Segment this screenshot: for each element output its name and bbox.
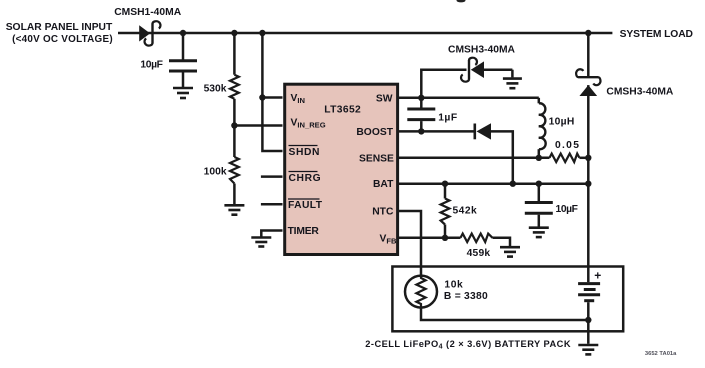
svg-text:2-CELL LiFePO4 (2 × 3.6V) BATT: 2-CELL LiFePO4 (2 × 3.6V) BATTERY PACK [365, 339, 571, 351]
node BAT output cap [536, 181, 542, 187]
svg-text:SYSTEM LOAD: SYSTEM LOAD [620, 29, 693, 40]
capacitor C2 1uF [407, 109, 435, 120]
ground 100k [224, 205, 244, 214]
svg-text:SOLAR PANEL INPUT: SOLAR PANEL INPUT [6, 22, 113, 33]
svg-text:BAT: BAT [373, 179, 394, 190]
wire inductor stubs [538, 98, 541, 104]
resistor R3 0.05 sense [550, 154, 580, 162]
wire BAT line [399, 182, 589, 185]
svg-text:459k: 459k [467, 248, 491, 259]
node VIN column top [259, 30, 265, 36]
resistor R5 459k [461, 234, 493, 242]
svg-text:10k: 10k [444, 279, 463, 290]
pin CHRG [289, 171, 318, 173]
wire SENSE line [399, 157, 550, 160]
wire 459k to ground [493, 238, 511, 246]
svg-text:TIMER: TIMER [288, 226, 320, 237]
wire VFB line [399, 237, 461, 240]
wire right rail [587, 33, 590, 77]
svg-text:BOOST: BOOST [356, 127, 393, 138]
ground TIMER [251, 238, 271, 247]
diode D3 boost [475, 123, 491, 139]
svg-text:FAULT: FAULT [288, 200, 323, 211]
diode D4 CMSH3-40MA output schottky [576, 69, 600, 96]
node VFB 542k [442, 235, 448, 241]
svg-text:CMSH1-40MA: CMSH1-40MA [114, 7, 182, 18]
wire FAULT stub [261, 203, 283, 206]
svg-text:SENSE: SENSE [359, 153, 394, 164]
svg-text:10µH: 10µH [549, 117, 575, 128]
pin FAULT [288, 198, 320, 200]
svg-text:CHRG: CHRG [289, 173, 322, 184]
svg-text:SW: SW [376, 93, 393, 104]
pin SHDN [289, 145, 318, 147]
svg-text:10µF: 10µF [140, 60, 162, 71]
ground input cap [173, 88, 193, 98]
ground battery [578, 345, 598, 354]
wire top rail [118, 32, 612, 35]
svg-text:CMSH3-40MA: CMSH3-40MA [448, 44, 516, 55]
node BAT rail [585, 181, 591, 187]
resistor R2 100k [230, 157, 239, 184]
svg-text:+: + [594, 269, 601, 283]
wire clamp diode branch [421, 70, 466, 98]
svg-text:B = 3380: B = 3380 [444, 291, 488, 302]
node SW 1uF [418, 95, 424, 101]
ground clamp diode [503, 79, 522, 89]
wire input cap drop [182, 33, 185, 60]
svg-text:(<40V OC VOLTAGE): (<40V OC VOLTAGE) [12, 34, 113, 45]
diode D2 CMSH3-40MA clamp schottky [461, 58, 484, 82]
wire SW line [399, 97, 539, 100]
wire VIN_REG stub [234, 124, 282, 127]
node system load rail top [585, 30, 591, 36]
svg-text:542k: 542k [453, 206, 478, 217]
node divider mid [231, 122, 237, 128]
svg-text:10µF: 10µF [556, 204, 578, 215]
diode D1 CMSH1-40MA input schottky [139, 21, 160, 45]
resistor R4 542k [441, 199, 450, 225]
wire 1uF cap column [420, 98, 423, 108]
svg-text:0.05: 0.05 [555, 140, 580, 151]
wire BOOST line [399, 130, 475, 133]
wire 542k column [444, 184, 447, 199]
capacitor C1 10uF input [169, 61, 197, 71]
wire vertical VIN feed with SHDN branch [262, 33, 282, 151]
svg-text:CMSH3-40MA: CMSH3-40MA [606, 87, 674, 98]
battery BT1 [578, 284, 600, 301]
node BAT 542k [442, 181, 448, 187]
svg-text:530k: 530k [204, 84, 227, 95]
node BAT boost diode [510, 181, 516, 187]
capacitor C3 10uF output [525, 203, 553, 214]
stray glyph top edge [457, 0, 466, 2]
node SENSE rail [585, 155, 591, 161]
svg-text:100k: 100k [204, 167, 227, 178]
wire CHRG stub [261, 175, 283, 178]
svg-text:1µF: 1µF [438, 113, 457, 124]
svg-text:LT3652: LT3652 [324, 105, 361, 116]
ground 459k [500, 247, 520, 256]
wire TIMER stub to ground [261, 231, 282, 237]
op-amp U1 LT3652 IC body [285, 84, 398, 254]
thermistor RT1 10k NTC [405, 276, 437, 308]
wire output cap column [538, 184, 541, 201]
wire thermistor bottom to battery minus [421, 308, 588, 320]
node BOOST 1uF [418, 128, 424, 134]
node VIN pin [259, 94, 265, 100]
node SENSE inductor [536, 155, 542, 161]
svg-text:SHDN: SHDN [289, 147, 321, 158]
wire 530k 100k divider column [233, 33, 236, 75]
inductor L1 10uH [539, 103, 546, 149]
node battery minus [585, 317, 591, 323]
ground output cap [529, 228, 549, 237]
wire NTC route down to thermistor [399, 211, 422, 276]
svg-text:3652 TA01a: 3652 TA01a [645, 351, 677, 357]
wire VIN stub [262, 96, 282, 99]
node 530k top [231, 30, 237, 36]
svg-text:NTC: NTC [372, 207, 394, 218]
resistor R1 530k [230, 75, 239, 99]
battery pack box [392, 267, 623, 332]
node input cap junction [180, 30, 186, 36]
